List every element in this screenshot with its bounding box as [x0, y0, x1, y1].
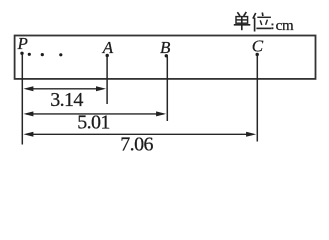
ellipsis dot 3 [59, 53, 62, 56]
point P dot [20, 52, 23, 55]
unit label 单 (SVG strokes) [234, 12, 251, 30]
svg-text:C: C [252, 37, 264, 56]
dimension arrow 5.01 (P to B) [23, 111, 166, 116]
dimension arrow 7.06 (P to C) [23, 132, 256, 137]
unit label colon [272, 24, 274, 30]
svg-text:3.14: 3.14 [50, 89, 83, 111]
svg-text:5.01: 5.01 [77, 111, 110, 133]
svg-text:B: B [160, 38, 171, 57]
ellipsis dot 2 [41, 53, 44, 56]
svg-text:7.06: 7.06 [120, 133, 153, 155]
svg-text:P: P [17, 34, 28, 53]
point B dot [165, 54, 168, 57]
extension line from A [106, 56, 108, 104]
rectangle strip [15, 36, 316, 79]
unit label 位 (SVG strokes) [253, 13, 271, 32]
extension line from P [21, 54, 23, 145]
ellipsis dot 1 [28, 53, 31, 56]
point C dot [256, 53, 259, 56]
dimension arrow 3.14 (P to A) [23, 86, 106, 91]
extension line from B [166, 57, 168, 122]
point A dot [106, 54, 109, 57]
svg-text:cm: cm [276, 18, 294, 34]
extension line from C [256, 55, 258, 142]
